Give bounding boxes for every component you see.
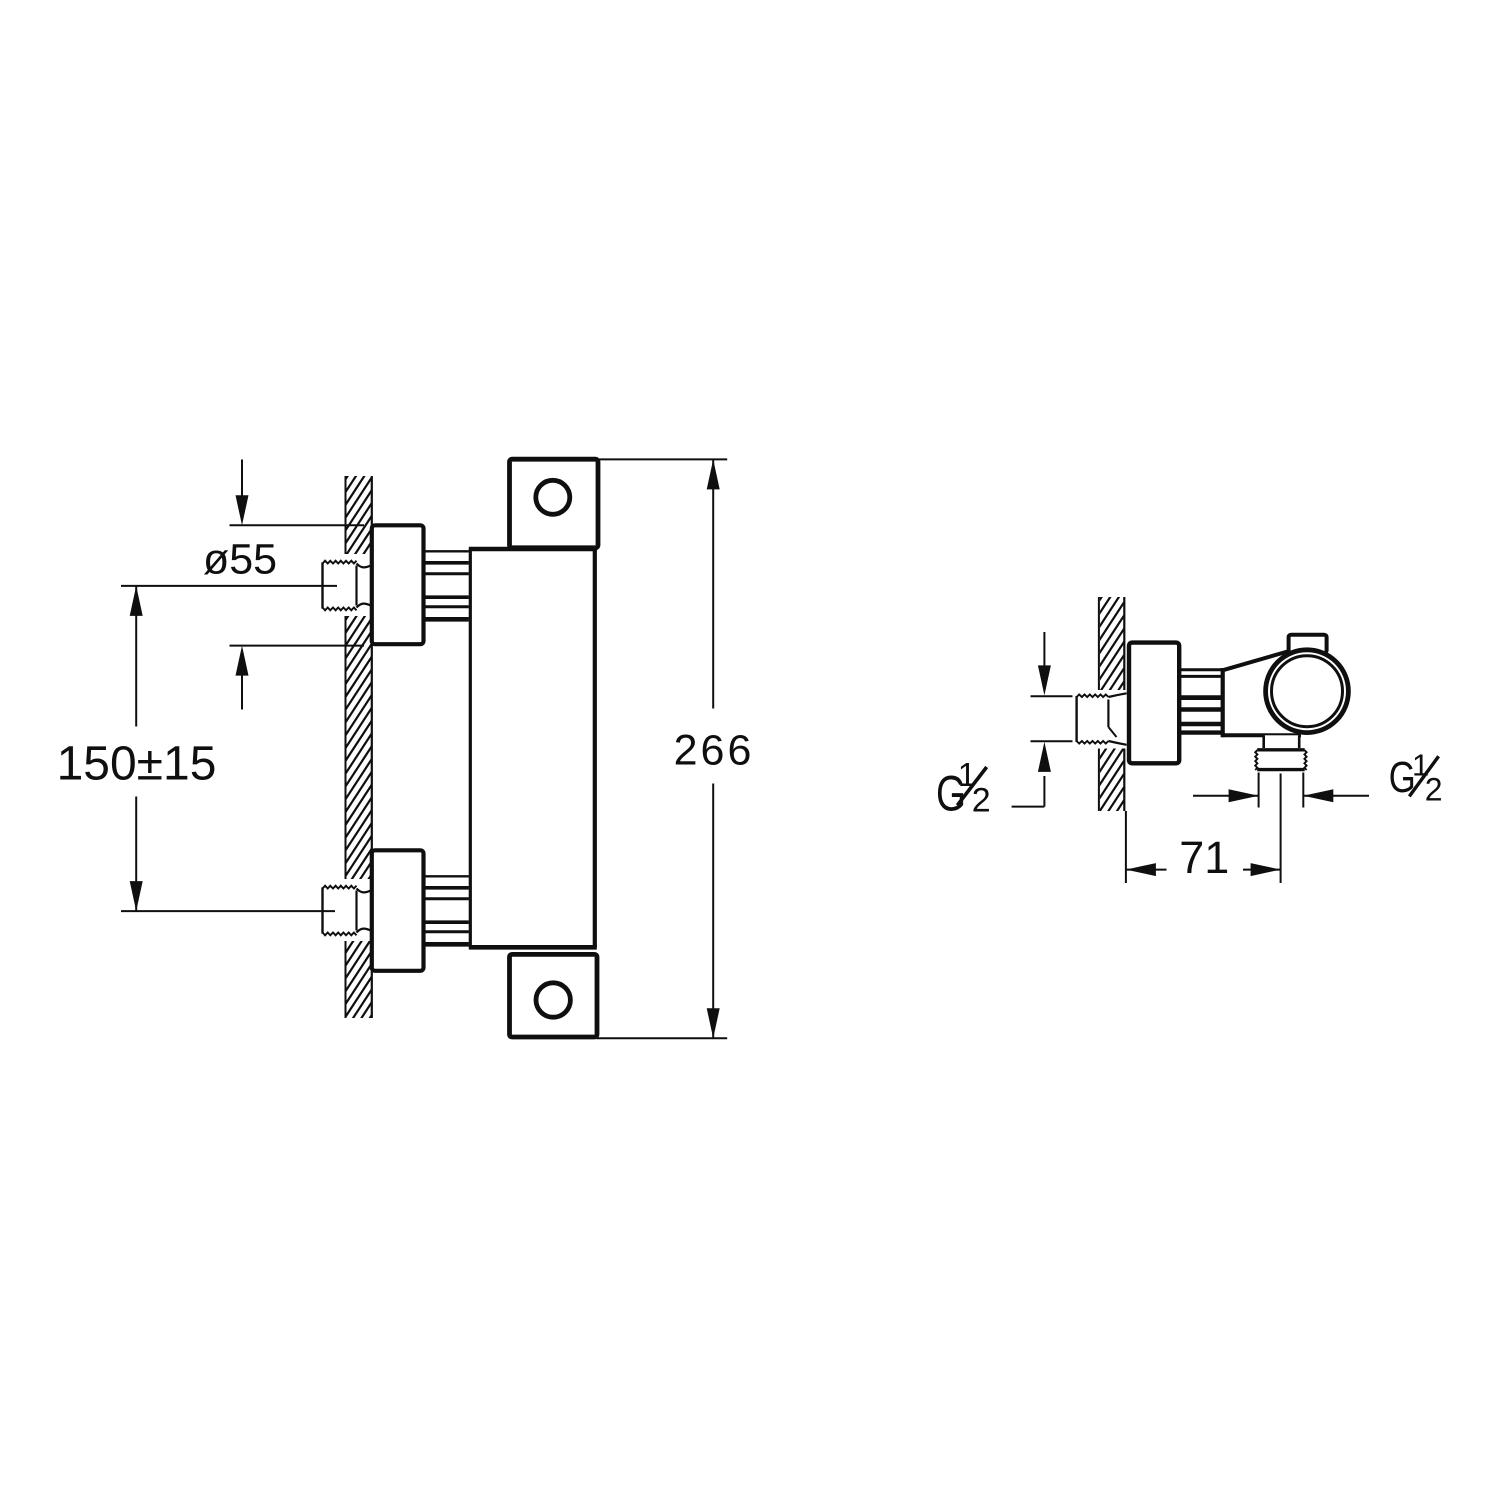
dimension arrow down (o55 top) bbox=[236, 460, 249, 526]
svg-text:2: 2 bbox=[972, 782, 991, 820]
svg-text:2: 2 bbox=[1425, 772, 1443, 808]
outlet neck (right view) bbox=[1264, 735, 1300, 749]
escutcheon (right view) bbox=[1129, 643, 1179, 764]
ribbed connector (right view) bbox=[1181, 668, 1223, 736]
threaded inlet fitting G1/2 (right view) bbox=[1077, 693, 1127, 745]
wall opening (white gap for pipe, right view) bbox=[1069, 690, 1129, 749]
dimension arrow down (inlet G1/2) bbox=[1038, 632, 1051, 695]
handle inner ring (right view) bbox=[1272, 656, 1343, 727]
dimension line 71 bbox=[1126, 863, 1281, 876]
extension line: fitting top edge (right view) bbox=[1031, 695, 1073, 697]
wall (left view, section with hatching) bbox=[345, 439, 372, 1056]
svg-text:71: 71 bbox=[1179, 832, 1229, 883]
escutcheon o55 (upper, left view) bbox=[372, 525, 424, 644]
escutcheon o55 (lower, left view) bbox=[372, 850, 424, 971]
dimension arrow up with leader (inlet G1/2) bbox=[1012, 742, 1051, 807]
svg-text:266: 266 bbox=[674, 727, 755, 775]
top end plate (left view) bbox=[510, 459, 599, 548]
extension line: upper fitting centerline bbox=[121, 585, 337, 587]
wall (right view, section with hatching) bbox=[1099, 563, 1124, 839]
ribbed connector (upper, left view) bbox=[426, 550, 470, 623]
dimension arrows outlet G1/2 bbox=[1193, 789, 1369, 802]
extension line: outlet left edge bbox=[1258, 773, 1260, 808]
handle outer ring (right view) bbox=[1266, 650, 1349, 733]
dimension line 150+-15 bbox=[130, 586, 143, 911]
dimension line 266 bbox=[707, 459, 720, 1038]
threaded inlet fitting G1/2 (lower, left view) bbox=[323, 886, 372, 936]
valve body cone (right view) bbox=[1223, 649, 1308, 738]
extension line: outlet centerline bbox=[1280, 774, 1282, 884]
extension line: top of fixture bbox=[598, 458, 728, 460]
screw hole (bottom plate) bbox=[536, 983, 570, 1017]
outlet threaded collar G1/2 (right view) bbox=[1255, 748, 1306, 771]
label G1/2 (left) bbox=[936, 756, 991, 822]
wall openings (white gaps for pipes) bbox=[316, 554, 374, 941]
extension line: top of escutcheon bbox=[230, 524, 365, 526]
svg-text:150±15: 150±15 bbox=[57, 738, 217, 791]
extension line: bottom of escutcheon bbox=[230, 645, 365, 647]
extension line: fitting bottom edge (right view) bbox=[1031, 740, 1073, 742]
temperature knob (right view) bbox=[1289, 635, 1327, 653]
extension line: outlet right edge bbox=[1302, 773, 1304, 808]
extension line: bottom of fixture bbox=[597, 1037, 728, 1039]
threaded inlet fitting G1/2 (upper, left view) bbox=[323, 561, 372, 611]
mixer body bar (left view) bbox=[469, 549, 597, 947]
extension line: lower fitting centerline bbox=[121, 910, 335, 912]
dimension arrow up (o55 bottom) bbox=[236, 646, 249, 710]
ribbed connector (lower, left view) bbox=[426, 875, 470, 948]
bottom end plate (left view) bbox=[510, 954, 598, 1037]
svg-text:ø55: ø55 bbox=[203, 536, 277, 584]
extension line: wall face (right view) bbox=[1125, 811, 1127, 883]
label G1/2 (right) bbox=[1389, 747, 1443, 807]
screw hole (top plate) bbox=[536, 480, 570, 514]
